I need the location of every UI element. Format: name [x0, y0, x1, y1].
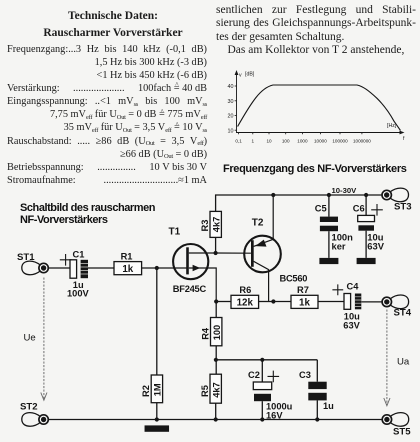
terminal ST2 — [20, 401, 48, 426]
wire to C2 and C3 — [216, 359, 317, 361]
junction C2 tap — [260, 358, 264, 362]
svg-text:4k7: 4k7 — [211, 382, 221, 398]
chart axes — [237, 72, 403, 133]
resistor R6 — [231, 295, 259, 308]
svg-text:C4: C4 — [347, 281, 360, 291]
svg-text:1000000: 1000000 — [353, 139, 371, 144]
svg-text:BF245C: BF245C — [173, 284, 207, 294]
wire C5 to ground symbol — [328, 231, 330, 258]
plus sign of C6 — [371, 204, 383, 216]
junction R4/R5/C2 line — [214, 358, 218, 362]
chart caption — [223, 163, 407, 175]
ground under C5 — [319, 258, 338, 264]
svg-text:R6: R6 — [239, 285, 251, 295]
wire C6 to ground symbol — [365, 231, 367, 258]
capacitor C2 (electrolytic 1000u/16V) — [253, 382, 271, 401]
junction rail/C3 — [315, 417, 319, 421]
wire to C2 — [261, 360, 263, 382]
svg-text:C1: C1 — [73, 250, 85, 260]
junction rail/R2 — [155, 417, 159, 421]
resistor R5 — [210, 374, 221, 403]
wire gate junction to R2 — [156, 268, 158, 375]
node Ue input arrow — [41, 278, 47, 401]
chart axis labels — [239, 72, 405, 143]
svg-text:C2: C2 — [248, 370, 260, 380]
svg-text:ST3: ST3 — [394, 201, 412, 212]
svg-text:10-30V: 10-30V — [332, 186, 358, 195]
junction source/R6/R4 — [214, 299, 218, 303]
chart response curve — [238, 85, 401, 131]
junction rail/R5 — [214, 417, 218, 421]
junction rail / C5 — [327, 193, 331, 197]
wire rail to C5 — [328, 195, 330, 217]
wire to C3 — [316, 360, 318, 382]
svg-text:100: 100 — [212, 325, 222, 341]
junction collector/R6/R7 — [271, 299, 275, 303]
svg-text:100: 100 — [282, 139, 290, 144]
svg-text:1M: 1M — [153, 383, 163, 396]
chart y tick labels — [228, 84, 234, 134]
junction T1 drain / R3 / T2 base — [214, 251, 218, 255]
wire C3 to ground rail — [316, 400, 318, 419]
svg-text:63V: 63V — [367, 240, 384, 251]
svg-text:100V: 100V — [67, 288, 90, 298]
svg-text:20: 20 — [228, 114, 234, 120]
ground rail wire — [48, 419, 382, 421]
svg-text:4k7: 4k7 — [211, 217, 221, 233]
capacitor C1 (electrolytic 1u/100V) — [70, 260, 88, 278]
wire R2 to ground rail — [156, 403, 158, 420]
svg-text:10: 10 — [266, 139, 272, 144]
svg-text:BC560: BC560 — [280, 274, 308, 284]
svg-text:C5: C5 — [315, 204, 327, 214]
svg-text:10000: 10000 — [314, 139, 327, 144]
wire R6 to collector junction — [259, 301, 274, 303]
wire C2 to ground rail — [261, 401, 263, 419]
svg-text:1: 1 — [252, 139, 255, 144]
capacitor C6 (electrolytic 10u/63V) — [358, 215, 375, 230]
top supply rail wire — [216, 195, 382, 211]
wire R1 to T1 gate — [142, 267, 188, 269]
resistor R2 — [151, 375, 162, 403]
svg-text:R1: R1 — [121, 251, 133, 261]
terminal ST1 — [17, 252, 48, 274]
svg-text:R7: R7 — [297, 285, 309, 295]
ground symbol at bottom rail — [145, 425, 170, 431]
svg-text:10: 10 — [228, 128, 234, 134]
svg-text:C6: C6 — [353, 204, 365, 214]
svg-text:R2: R2 — [141, 385, 151, 397]
junction rail/C2 — [260, 417, 264, 421]
wire C1 to R1 — [88, 267, 114, 269]
wire T1 source to R6 — [216, 301, 231, 303]
wire rail to C6 — [365, 195, 367, 215]
capacitor C4 (electrolytic 10u/63V) — [344, 294, 361, 310]
terminal ST3 — [382, 188, 412, 212]
svg-text:C3: C3 — [299, 370, 311, 380]
schematic caption — [20, 203, 155, 226]
right paragraph — [216, 4, 416, 57]
svg-text:Ue: Ue — [24, 333, 36, 344]
svg-text:T2: T2 — [252, 218, 264, 229]
svg-text:0,1: 0,1 — [235, 139, 242, 144]
junction R1/R2/gate — [155, 266, 159, 270]
svg-text:v: v — [239, 73, 242, 79]
svg-text:ST4: ST4 — [394, 307, 412, 318]
wire junction to R4 — [215, 302, 217, 318]
svg-text:R3: R3 — [200, 220, 210, 232]
wire R5 to ground rail — [215, 403, 217, 419]
svg-text:30: 30 — [228, 99, 234, 105]
node Ua output arrow — [384, 310, 390, 406]
chart x tick labels — [235, 139, 371, 144]
transistor T1 BF245C — [173, 244, 216, 302]
terminal ST5 — [382, 413, 411, 438]
terminal ST4 — [382, 295, 412, 318]
svg-text:ker: ker — [332, 240, 346, 251]
svg-text:1k: 1k — [122, 264, 133, 275]
svg-text:R4: R4 — [200, 327, 210, 340]
wire R7 to C4 — [318, 301, 344, 303]
resistor R3 — [210, 211, 221, 237]
svg-text:40: 40 — [228, 84, 234, 90]
svg-text:T1: T1 — [169, 227, 181, 238]
svg-text:ST1: ST1 — [17, 252, 35, 263]
left technical data block — [7, 8, 207, 187]
svg-text:1000: 1000 — [297, 139, 308, 144]
capacitor C3 (1u) — [308, 382, 326, 401]
svg-text:100000: 100000 — [332, 139, 348, 144]
wire C4 to ST4 — [361, 301, 382, 303]
wire base of T2 — [216, 252, 251, 254]
svg-text:1u: 1u — [323, 401, 334, 411]
svg-text:Ua: Ua — [397, 357, 410, 368]
svg-text:R5: R5 — [200, 385, 210, 397]
plus sign of C1 — [60, 254, 72, 266]
plus sign of C4 — [332, 284, 343, 295]
svg-text:63V: 63V — [343, 321, 360, 331]
wire ST1 to C1 — [48, 267, 70, 269]
svg-text:ST2: ST2 — [20, 401, 38, 412]
plus sign of C2 — [268, 371, 280, 383]
svg-text:1k: 1k — [299, 298, 310, 309]
svg-text:f: f — [403, 136, 405, 142]
transistor T2 BC560 — [244, 195, 281, 302]
resistor R1 — [114, 262, 142, 275]
resistor R4 — [211, 318, 222, 346]
capacitor C5 (ceramic 100n) — [320, 217, 338, 232]
wire junction to R7 — [273, 301, 291, 303]
svg-text:12k: 12k — [237, 298, 254, 309]
svg-text:ST5: ST5 — [393, 426, 411, 437]
junction rail / T2 emitter — [271, 193, 275, 197]
resistor R7 — [291, 295, 318, 308]
wire R4 to R5 — [215, 346, 217, 374]
junction rail / C6 — [364, 193, 368, 197]
svg-text:[dB]: [dB] — [245, 72, 255, 78]
wire drain junction to R3 — [215, 237, 217, 253]
ground under C6 — [357, 258, 376, 264]
